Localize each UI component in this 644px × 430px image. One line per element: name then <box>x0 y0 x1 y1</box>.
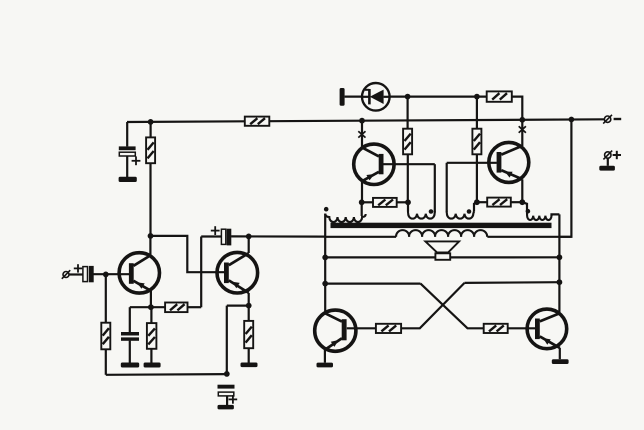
measuring point x-mark at T3 collector <box>358 131 365 137</box>
wire: R5 top lead <box>248 306 250 321</box>
wire: T5 emitter lead to ground <box>324 350 326 363</box>
node: Woc2 phasing dot <box>526 209 531 214</box>
wire: T1 collector node to C5 corner <box>151 236 225 272</box>
junction: T2 emitter / R5 / C4 riser <box>246 303 252 309</box>
ground below R3 <box>144 363 161 368</box>
capacitor C1 20.0x6V (electrolytic, horizontal) <box>74 264 94 282</box>
wire: R11 right lead <box>511 201 523 203</box>
transformer Tr1 core <box>331 223 552 228</box>
wire: right vertical from rail down <box>559 120 571 237</box>
wire: T1 emitter lead down <box>150 291 152 308</box>
resistor R12 1.1k (horizontal) <box>376 324 401 333</box>
wire: R1 top lead <box>105 275 107 323</box>
junction: rail / right vertical <box>569 117 575 123</box>
transistor T6 P201-P203 <box>527 309 567 349</box>
junction: right rail / speaker line <box>557 254 563 260</box>
winding Woc1 (4 loops) <box>325 214 366 222</box>
wire: T4 collector lead to rail <box>521 120 523 146</box>
junction: right rail / cross feed <box>557 279 563 285</box>
capacitor C2 50.0x30V (electrolytic) <box>119 146 141 165</box>
junction: T2 collector / C5 line <box>246 234 252 240</box>
junction: left rail / speaker line <box>322 255 328 261</box>
transistor T3 P201-P203 <box>354 144 394 184</box>
wire: C2 stub from rail <box>126 122 128 146</box>
transistor T5 P201-P203 <box>315 310 356 351</box>
wire: C5 right lead to transformer <box>231 235 325 237</box>
wire: C2 lower stub <box>126 156 128 177</box>
wire: R10 upper lead <box>476 97 478 129</box>
resistor R1 220k (vertical) <box>101 323 110 350</box>
resistor R10 4.3k (vertical) <box>472 129 481 155</box>
node: Woc1 phasing dot <box>324 207 329 212</box>
wire: R1 bottom lead <box>105 349 107 375</box>
wire: Woc1 right end up to R8 node <box>361 202 363 216</box>
junction: R8 / R7 / winding III <box>405 199 411 205</box>
junction: T1 collector / R2 / C5 line <box>148 233 154 239</box>
wire: T3 collector lead to rail <box>361 121 363 148</box>
wire: T4 emitter lead down <box>521 179 523 202</box>
ground below R5 <box>241 363 258 368</box>
wire: T4 base lead <box>447 162 497 164</box>
resistor R2 20k (vertical) <box>146 137 155 163</box>
wire: R11 left lead <box>477 201 487 203</box>
junction: rail / R2 / C2 <box>148 119 154 125</box>
junction: R11 / R10 / winding II <box>474 199 480 205</box>
wire: C1 to T1 base <box>94 273 130 275</box>
capacitor C4 50.0x4V (electrolytic) <box>218 385 238 404</box>
junction: rail / T4 collector / R9 <box>519 117 525 123</box>
wire: winding I left lead <box>325 236 396 238</box>
measuring point x-mark at T4 collector <box>519 126 526 132</box>
resistor R5 220 (vertical) <box>244 321 253 348</box>
wire: R6 riser from C5 left lead <box>200 237 202 308</box>
wire: diode line from terminal to D1 <box>345 95 362 97</box>
wire: T2 emitter lead down <box>248 293 250 306</box>
capacitor C3 1.0 <box>121 332 139 341</box>
wire: R9 right lead <box>512 97 523 120</box>
junction: bottom rail / C4 <box>224 371 230 377</box>
resistor R6 7.5k (horizontal) <box>165 303 187 313</box>
battery clamp bar <box>599 166 615 171</box>
terminal bar at D1 anode side <box>340 88 345 106</box>
junction: rail / T3 collector <box>359 118 365 124</box>
winding Woc2 (4 loops) <box>527 212 552 221</box>
wire: R12 left lead to T5 base <box>347 327 376 329</box>
wire: T3 emitter lead down <box>361 181 363 202</box>
wire: R8 left lead <box>362 201 373 203</box>
ground below T5 emitter <box>317 363 334 368</box>
ground below C3 <box>121 363 139 368</box>
wire: top supply rail right of R4 <box>269 119 605 121</box>
wire: T1 collector lead up <box>149 236 151 256</box>
junction: T1 base / C1 / R1 <box>103 272 109 278</box>
wire: cross diagonal to R12 <box>401 283 464 328</box>
resistor R11 51 (horizontal) <box>487 198 511 207</box>
winding I (7 loops, below core) <box>396 230 487 237</box>
wire: R3 bottom lead <box>150 349 152 363</box>
ground below C4 <box>218 405 234 410</box>
wire: Woc2 left end up to R11 node <box>522 202 527 211</box>
wire: riser winding II left end to T4 base <box>446 163 448 213</box>
wire: R2 bottom lead down to T1 collector node <box>149 163 151 236</box>
wire: C3 riser <box>129 307 131 332</box>
wire: C5 left lead <box>201 235 221 237</box>
wire: winding II right end up to R11 node <box>474 202 477 211</box>
terminal: Eb plus circle, plus sign and clamp <box>603 151 621 160</box>
wire: input wire to C1 <box>69 273 83 275</box>
wire: R6 right lead <box>188 306 202 308</box>
wire: cross feed left segment from T5 collector node <box>325 283 420 285</box>
wire: battery plus stub <box>607 158 609 166</box>
wire: speaker line right <box>450 256 560 258</box>
wire: R13 right lead to T6 base <box>508 327 536 329</box>
wire: C4 riser <box>226 306 228 374</box>
wire: R7 lower lead to R8/III node <box>407 154 409 202</box>
resistor R9 750 (horizontal) <box>487 91 512 101</box>
wire: top supply rail left of R4 <box>127 120 245 123</box>
wire: winding III left end up to R8 node <box>407 202 409 211</box>
resistor R8 51 (horizontal) <box>373 198 397 207</box>
wire: T1 emitter node horizontal <box>130 306 165 308</box>
wire: R8 right lead <box>397 201 408 203</box>
capacitor C5 20.0x15V (electrolytic, horizontal) <box>211 226 232 245</box>
winding III (3 loops) <box>408 212 435 219</box>
zener diode D1 D808 <box>362 83 390 111</box>
resistor R3 360 (vertical) <box>147 323 157 349</box>
loudspeaker Gr1 <box>425 241 459 259</box>
transistor T4 P201-P203 <box>489 142 529 182</box>
wire: R5 bottom lead <box>248 348 250 362</box>
ground below C2 <box>119 177 137 182</box>
wire: right vertical Woc2/T6 collector rail <box>558 214 560 314</box>
junction: T4 emitter / R11 / Woc2 <box>519 199 525 205</box>
node: winding III phasing dot <box>429 209 434 214</box>
wire: bottom feedback rail R1 to C4 <box>106 373 227 376</box>
wire: R2 top lead <box>150 122 152 137</box>
resistor R4 3.9k (horizontal, on rail) <box>245 117 269 126</box>
wire: R3 top lead <box>150 307 152 323</box>
wire: T3 base lead <box>383 163 435 165</box>
terminal: input Uvx circle <box>62 270 70 279</box>
junction: diode line / R10 <box>474 94 480 100</box>
wire: T2 emitter node horizontal <box>227 305 249 307</box>
winding II (3 loops) <box>447 212 474 219</box>
wire: cross diagonal to R13 <box>421 284 484 329</box>
wire: speaker line left <box>325 256 436 258</box>
junction: left rail / cross feed <box>322 281 328 287</box>
node: winding II phasing dot <box>467 209 472 214</box>
junction: T3 emitter / R8 / Woc1 <box>359 199 365 205</box>
wire: T6 emitter lead to ground <box>559 348 561 359</box>
transistor T2 P15A <box>217 252 258 293</box>
wire: R7 upper lead <box>407 97 409 129</box>
wire: cross feed right segment from T6 collector node <box>465 281 560 284</box>
wire: T2 collector lead up <box>248 236 250 253</box>
ground below T6 emitter <box>552 359 569 364</box>
wire: transformer left vertical rail <box>324 214 326 314</box>
junction: diode line / R7 <box>405 94 411 100</box>
terminal: Eb minus circle and dash <box>603 115 621 124</box>
wire: R10 lower lead to R11/II node <box>476 154 478 202</box>
resistor R13 1.1k (horizontal) <box>484 324 508 333</box>
resistor R7 4.3k (vertical) <box>403 129 412 155</box>
wire: C4 bottom stub <box>226 396 228 405</box>
wire: C3 bottom stub <box>129 341 131 363</box>
junction: T1 emitter / R3 / R6 / C3 <box>148 304 154 310</box>
wire: winding I right lead <box>487 236 571 238</box>
wire: diode line from D1 to R9 <box>390 95 487 97</box>
wire: Woc2 right end jog to right vertical <box>552 214 560 216</box>
transistor T1 P13B <box>119 253 159 293</box>
wire: riser winding III right end to T3 base <box>434 164 436 212</box>
